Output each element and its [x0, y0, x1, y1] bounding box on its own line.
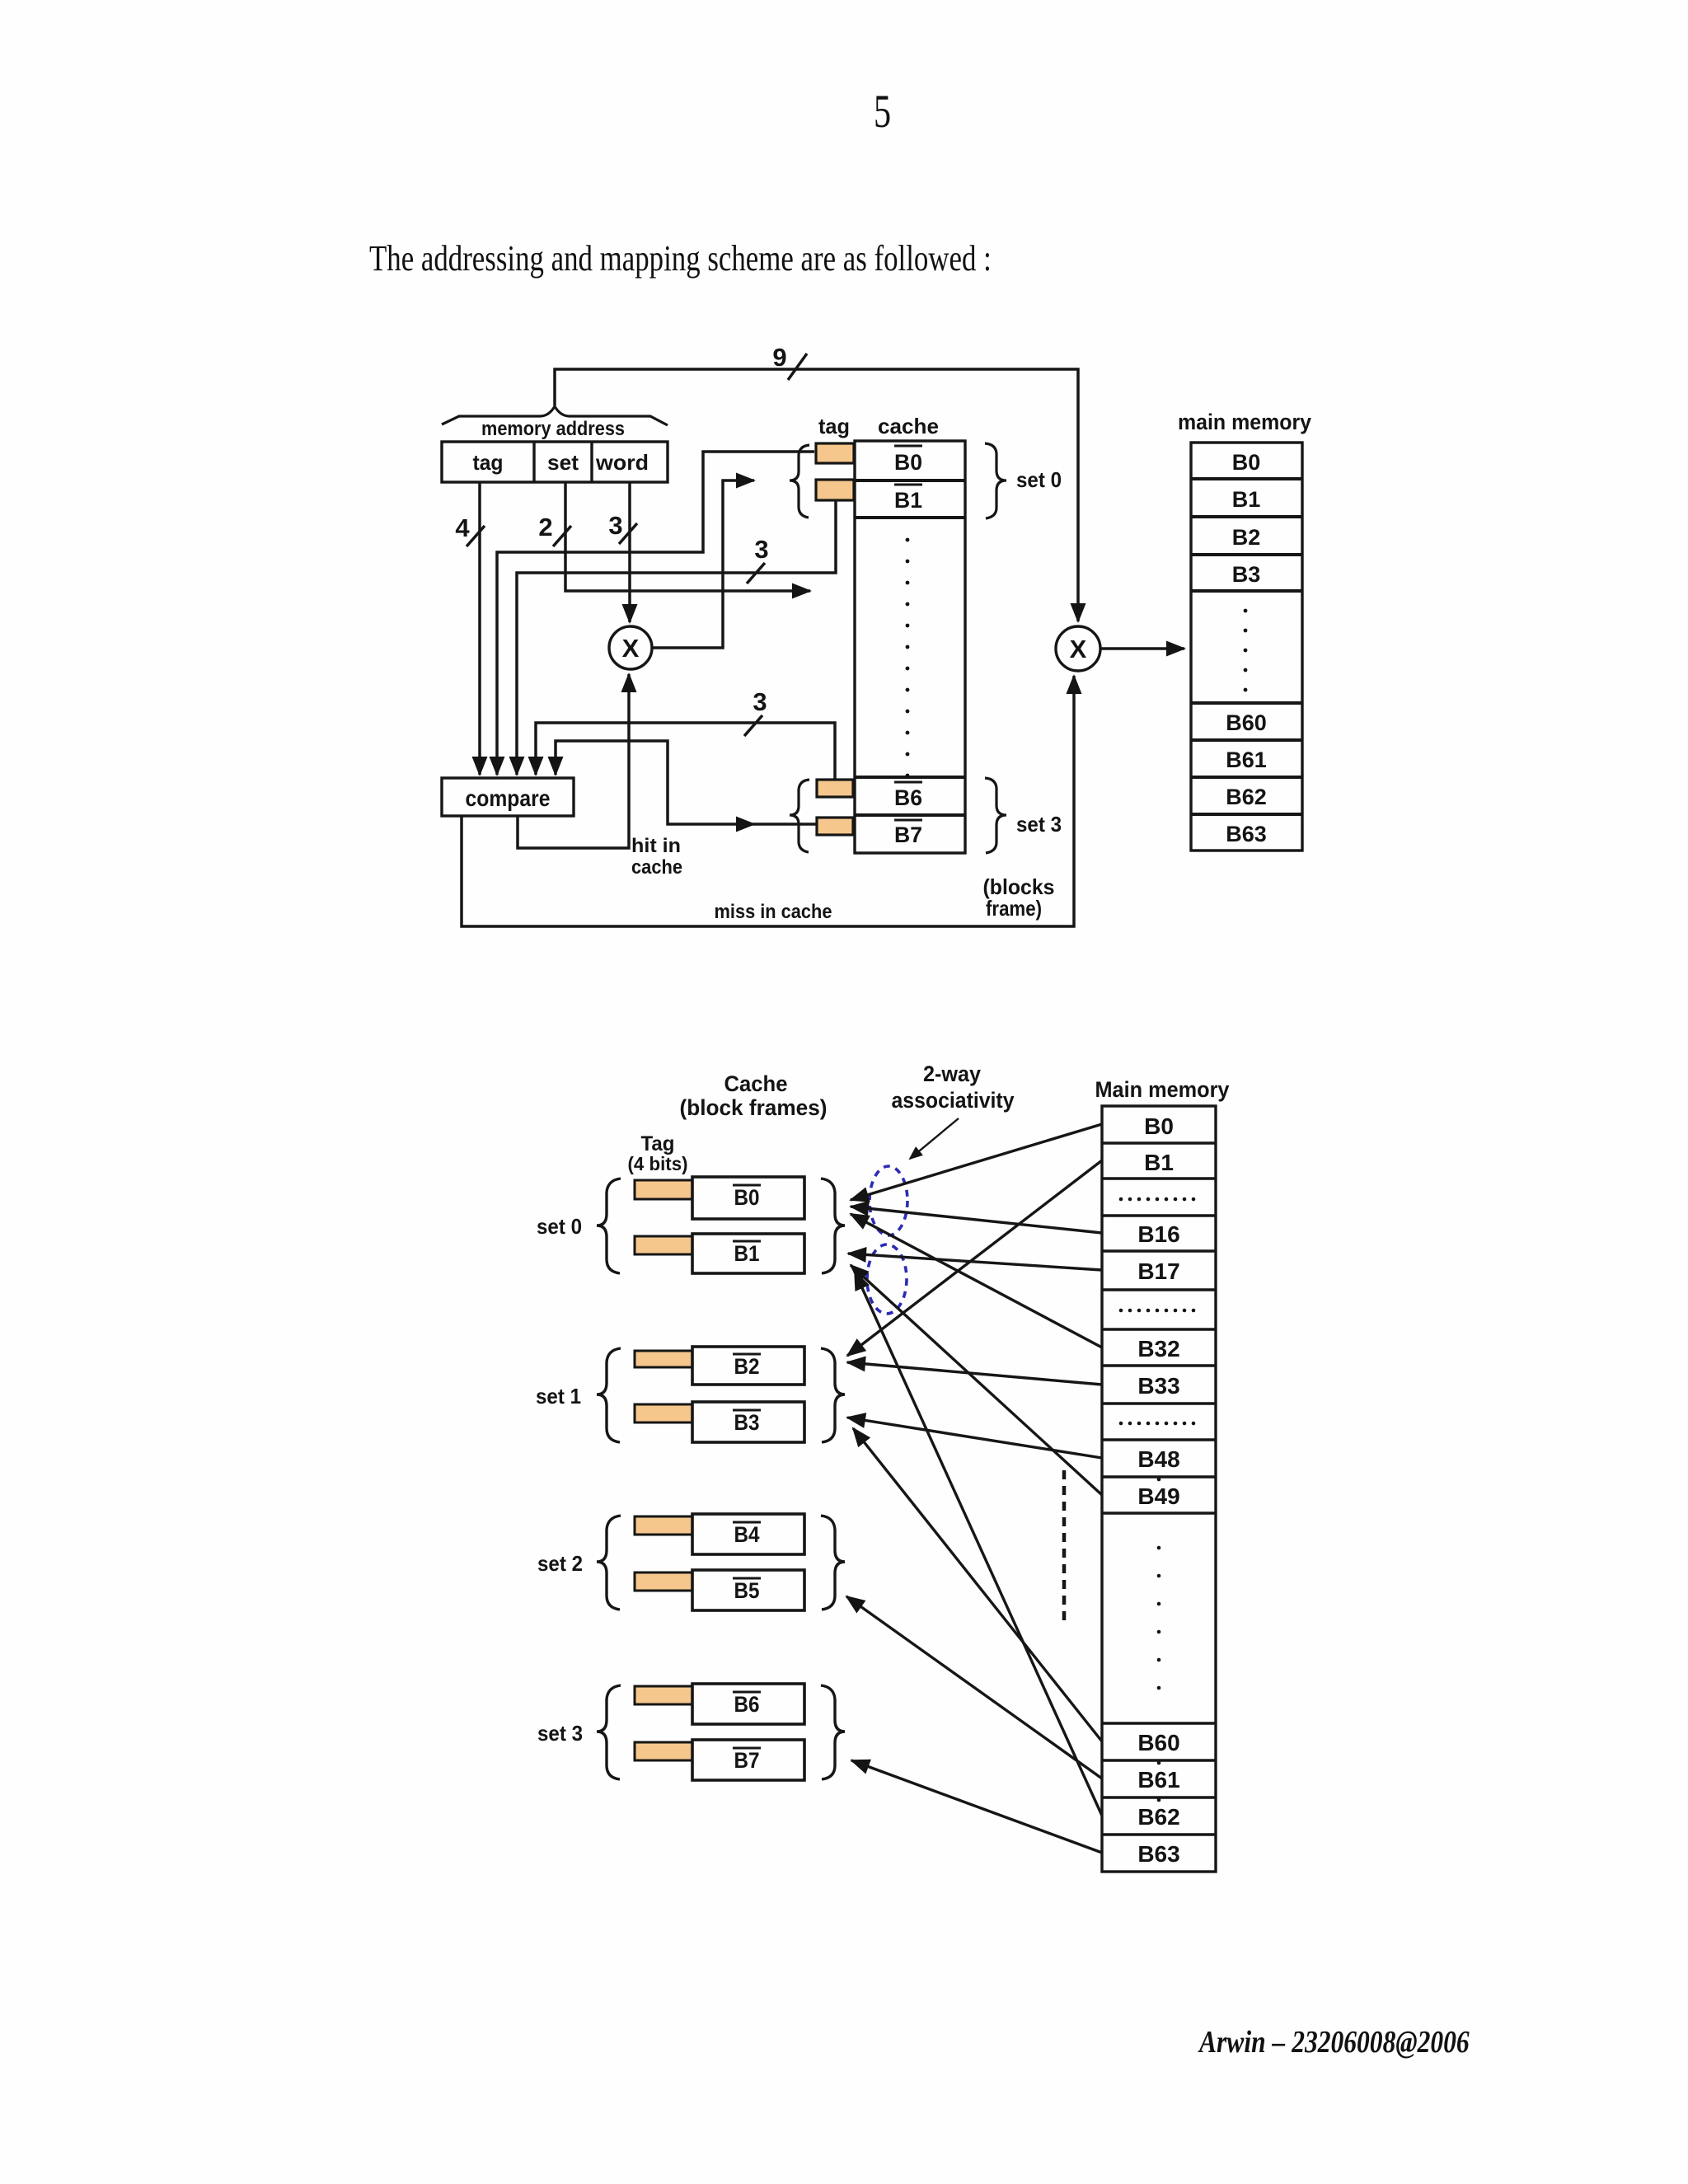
svg-text:B61: B61 [1137, 1767, 1179, 1793]
svg-text:B5: B5 [734, 1578, 760, 1603]
main memory box D1 [1191, 443, 1302, 851]
svg-text:B2: B2 [1232, 525, 1261, 550]
svg-text:B6: B6 [734, 1692, 760, 1717]
cache frame B7 [635, 1740, 804, 1780]
brace left of set3 tags [790, 780, 809, 852]
svg-text:memory address: memory address [481, 418, 625, 440]
tag box T0 [816, 443, 854, 463]
svg-text:set 2: set 2 [537, 1551, 583, 1576]
slash on tag wire [467, 526, 485, 546]
svg-text:set 3: set 3 [1016, 812, 1062, 837]
divider tag/set [532, 442, 535, 482]
divider B0/B1 [855, 479, 965, 482]
svg-text:B3: B3 [1232, 562, 1261, 587]
svg-text:B63: B63 [1226, 822, 1267, 846]
memory address box [442, 442, 668, 482]
cache frame B0 [635, 1177, 804, 1219]
tag box T1 [816, 480, 854, 500]
cache frame B2 [635, 1347, 804, 1385]
dotted filler rows D2 [1119, 1197, 1196, 1802]
svg-text:B63: B63 [1137, 1841, 1179, 1867]
svg-text:main memory: main memory [1178, 410, 1311, 434]
compare box [442, 778, 574, 816]
brace right of set3 (set 3) [985, 778, 1006, 853]
svg-text:B0: B0 [734, 1185, 760, 1210]
svg-text:B1: B1 [734, 1241, 760, 1266]
svg-text:B16: B16 [1137, 1221, 1179, 1247]
svg-text:B62: B62 [1226, 785, 1267, 809]
svg-text:tag: tag [818, 414, 850, 438]
mapping arrow B1 to set1 [847, 1160, 1102, 1356]
svg-text:set 1: set 1 [536, 1384, 581, 1408]
tag box T6 [817, 780, 853, 797]
svg-text:X: X [622, 634, 640, 663]
wire set field to cache select arrow [565, 482, 810, 591]
svg-text:B2: B2 [734, 1354, 760, 1379]
wire X2 to main memory [1100, 647, 1184, 650]
svg-text:set 0: set 0 [537, 1214, 582, 1239]
mapping arrow B17 to set0 lower [848, 1254, 1102, 1270]
labels main memory rows D2 [1137, 1113, 1179, 1867]
wire hit-in-cache from compare to X1 [518, 674, 629, 848]
brace right set0 D2 [821, 1179, 845, 1273]
dotted column main memory D1 [1244, 609, 1248, 692]
brace left set2 D2 [597, 1516, 621, 1610]
svg-text:cache: cache [878, 414, 939, 438]
svg-text:B32: B32 [1137, 1336, 1179, 1361]
svg-text:B3: B3 [734, 1410, 760, 1435]
svg-text:3: 3 [608, 511, 622, 540]
svg-text:B4: B4 [734, 1522, 760, 1547]
divider over B6 [855, 776, 965, 779]
svg-text:word: word [595, 450, 649, 475]
svg-text:X: X [1070, 635, 1087, 663]
vertical dots in tall gap [1157, 1546, 1161, 1550]
svg-text:B1: B1 [1144, 1150, 1174, 1175]
svg-text:cache: cache [631, 856, 682, 879]
wire tag field to compare [478, 482, 481, 775]
svg-text:B0: B0 [1232, 450, 1261, 475]
brace right set1 D2 [821, 1348, 845, 1442]
mapping arrow B32 to set0 [851, 1214, 1102, 1347]
mapping arrow B33 to set1 [847, 1362, 1102, 1385]
svg-text:B61: B61 [1226, 748, 1267, 772]
svg-text:2: 2 [538, 513, 552, 541]
svg-text:4: 4 [455, 513, 470, 542]
wire frame-select to set3 brace and compare [556, 741, 754, 824]
svg-text:2-way: 2-way [923, 1062, 981, 1086]
dashed reference line [1062, 1470, 1067, 1624]
wire cache tag T6 to compare [536, 723, 835, 779]
wire X1 output to set0 brace arrow [652, 480, 754, 648]
wire miss-in-cache from compare to X2 [462, 676, 1074, 926]
svg-text:(4 bits): (4 bits) [628, 1153, 688, 1174]
brace left set1 D2 [597, 1348, 621, 1442]
svg-text:set 3: set 3 [537, 1721, 583, 1746]
divider B6/B7 [855, 813, 965, 817]
body paragraph [369, 237, 992, 279]
svg-text:B48: B48 [1137, 1446, 1179, 1472]
mapping arrow B60 to set1 lower [853, 1428, 1102, 1741]
X2 multiplier circle [1056, 626, 1100, 671]
svg-text:tag: tag [473, 450, 504, 475]
blue ellipse on set0 frame0 [870, 1166, 907, 1235]
svg-text:B62: B62 [1137, 1804, 1179, 1830]
slash on T6 wire [744, 715, 762, 736]
svg-text:B60: B60 [1226, 710, 1267, 735]
cache frame B5 [635, 1570, 804, 1610]
cache frame B4 [635, 1514, 804, 1554]
cache frame B1 [635, 1234, 804, 1273]
brace left set3 D2 [597, 1685, 621, 1779]
brace left of set0 tags [790, 445, 809, 518]
slash on T1 wire [747, 563, 765, 583]
wire word field into X1 [628, 482, 631, 622]
main memory box D2 [1102, 1106, 1216, 1872]
pointer arrow from 2-way label [910, 1118, 959, 1159]
svg-text:(block frames): (block frames) [680, 1095, 828, 1120]
page number 5 [874, 85, 891, 138]
dotted column in cache [906, 538, 910, 778]
svg-text:B1: B1 [1232, 487, 1261, 512]
labels main memory rows D1 [1226, 450, 1267, 846]
tag box T7 [817, 818, 853, 835]
svg-text:B49: B49 [1137, 1483, 1179, 1509]
brace right set2 D2 [821, 1516, 845, 1610]
svg-text:B6: B6 [894, 785, 922, 810]
svg-text:9: 9 [772, 343, 786, 372]
svg-text:B1: B1 [894, 488, 922, 513]
cache frame B6 [635, 1684, 804, 1724]
brace right set3 D2 [821, 1685, 845, 1779]
brace left set0 D2 [597, 1179, 621, 1273]
mapping arrow B0 to set0 [851, 1124, 1102, 1200]
svg-text:set: set [547, 450, 579, 475]
svg-text:compare: compare [466, 785, 551, 811]
svg-text:Tag: Tag [641, 1132, 675, 1155]
svg-text:B7: B7 [734, 1748, 760, 1773]
slash on 9-bit bus [788, 354, 807, 380]
cache frame B3 [635, 1402, 804, 1442]
mapping arrow B62 to set0 lower [855, 1272, 1102, 1816]
svg-text:hit in: hit in [631, 835, 681, 857]
slash on set wire [553, 526, 571, 546]
divider under B1 [855, 516, 965, 519]
svg-text:B7: B7 [894, 823, 922, 847]
mapping arrow B49 to set0 lower [851, 1265, 1102, 1495]
svg-text:associativity: associativity [892, 1088, 1015, 1113]
mapping arrow B16 to set0 [851, 1207, 1102, 1233]
footer author line [1199, 2024, 1470, 2060]
brace over memory address box [442, 406, 668, 425]
slash on word wire [619, 523, 637, 544]
svg-text:B0: B0 [1144, 1113, 1174, 1139]
svg-text:B33: B33 [1137, 1373, 1179, 1399]
mapping arrow B61 to set2 [846, 1596, 1102, 1779]
svg-text:B60: B60 [1137, 1730, 1179, 1755]
mapping arrow B48 to set1 lower [847, 1418, 1102, 1458]
svg-text:miss in cache: miss in cache [715, 901, 832, 923]
svg-text:B17: B17 [1137, 1258, 1179, 1284]
divider set/word [590, 442, 593, 482]
wire 9-bit bus from memory address to X2 [555, 369, 1078, 621]
cache column box [855, 441, 965, 853]
svg-text:set 0: set 0 [1016, 467, 1062, 492]
wire cache tag T0 to compare [497, 452, 814, 775]
svg-text:Main memory: Main memory [1095, 1077, 1230, 1102]
mapping arrow B63 to set3 [851, 1760, 1102, 1853]
svg-text:3: 3 [753, 687, 767, 716]
svg-text:Cache: Cache [724, 1071, 788, 1096]
svg-text:B0: B0 [894, 450, 922, 475]
X1 multiplier circle [609, 626, 652, 669]
svg-text:3: 3 [754, 535, 768, 564]
svg-text:frame): frame) [986, 896, 1042, 921]
wire frame-select continuation into tag T7 [754, 823, 816, 826]
wire cache tag T1 to compare [517, 501, 836, 775]
blue ellipse on set0 frame1 [867, 1244, 907, 1314]
brace right of set0 (set 0) [985, 443, 1006, 518]
